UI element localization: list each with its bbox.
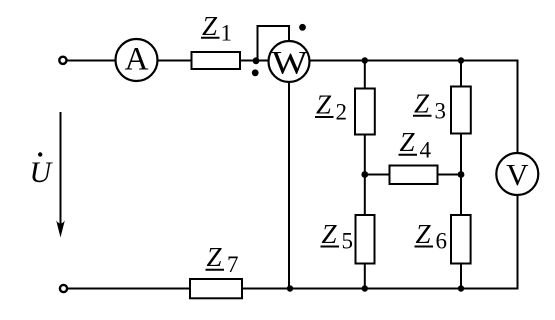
wire right branch lower (voltmeter to bottom rail)	[517, 194, 519, 290]
svg-text:W: W	[272, 44, 308, 81]
label U (phasor)	[30, 152, 54, 189]
svg-text:Z: Z	[416, 219, 432, 249]
junction node top of branch2	[458, 57, 464, 63]
wire: node B to Z4 left	[365, 174, 390, 176]
label Z2	[315, 90, 347, 125]
voltage arrow U head	[56, 221, 65, 238]
terminal top-left	[59, 57, 66, 64]
ammeter A1	[116, 39, 158, 81]
svg-text:3: 3	[435, 98, 447, 123]
polarity dot of wattmeter voltage coil	[299, 24, 306, 31]
wire bottom: Z7 to bottom-right corner	[241, 288, 518, 290]
impedance Z7	[190, 279, 242, 298]
impedance Z3	[451, 87, 471, 134]
svg-text:U: U	[30, 156, 54, 189]
wire: wattmeter voltage-coil loop	[258, 26, 290, 61]
svg-text:A: A	[125, 41, 149, 77]
impedance Z4	[390, 166, 438, 185]
junction node top of branch1	[362, 57, 368, 63]
junction node bottom of branch1	[362, 285, 368, 291]
svg-text:6: 6	[436, 228, 448, 253]
svg-text:7: 7	[227, 252, 239, 277]
junction node bottom of wattmeter lead	[287, 285, 293, 291]
svg-text:2: 2	[336, 99, 348, 124]
impedance Z1	[192, 52, 241, 69]
wattmeter W1	[269, 41, 310, 82]
svg-text:Z: Z	[400, 127, 416, 157]
svg-text:Z: Z	[322, 219, 338, 249]
impedance Z6	[451, 215, 471, 264]
label Z7	[206, 242, 239, 277]
wire branch2 middle (Z3 to Z6 through node)	[460, 133, 462, 215]
wire: ammeter to Z1	[157, 60, 192, 62]
junction node at wattmeter input	[253, 57, 260, 64]
junction node B (Z4 left)	[361, 171, 368, 178]
wire: wattmeter bottom lead down to bottom rail	[288, 82, 290, 289]
wire top-left: terminal to ammeter	[66, 60, 116, 62]
wire branch2 bottom (Z6 to bottom rail)	[460, 263, 462, 289]
junction node bottom of branch2	[458, 285, 464, 291]
wire bottom: terminal to Z7	[67, 288, 191, 290]
voltmeter V1	[496, 153, 538, 195]
svg-text:Z: Z	[414, 88, 430, 118]
svg-text:Z: Z	[207, 242, 223, 272]
wire branch1 middle (Z2 to Z5 through node)	[364, 134, 366, 215]
label Z5	[321, 219, 354, 253]
wire: Z4 right to node C	[437, 174, 461, 176]
label Z6	[415, 219, 448, 253]
terminal bottom-left	[60, 285, 67, 292]
wire branch2 top (to Z3)	[460, 61, 462, 88]
svg-text:Z: Z	[316, 90, 332, 120]
impedance Z2	[355, 89, 375, 135]
junction node C (Z4 right)	[458, 171, 465, 178]
svg-text:5: 5	[342, 228, 354, 253]
label Z3	[413, 88, 446, 123]
voltage arrow U shaft	[60, 112, 62, 231]
wire top: wattmeter to top-right corner	[309, 60, 518, 62]
label Z1	[201, 11, 232, 45]
label Z4	[399, 127, 432, 162]
impedance Z5	[356, 215, 375, 264]
wire branch1 top (to Z2)	[364, 61, 366, 90]
svg-text:Z: Z	[202, 11, 218, 41]
polarity dot of wattmeter current coil	[252, 69, 259, 76]
svg-text:4: 4	[420, 137, 432, 162]
svg-text:1: 1	[221, 21, 233, 46]
wire: Z1 to wattmeter	[240, 60, 269, 62]
wire right branch upper (to voltmeter)	[517, 60, 519, 155]
wire branch1 bottom (Z5 to bottom rail)	[364, 263, 366, 289]
svg-text:V: V	[506, 157, 529, 192]
